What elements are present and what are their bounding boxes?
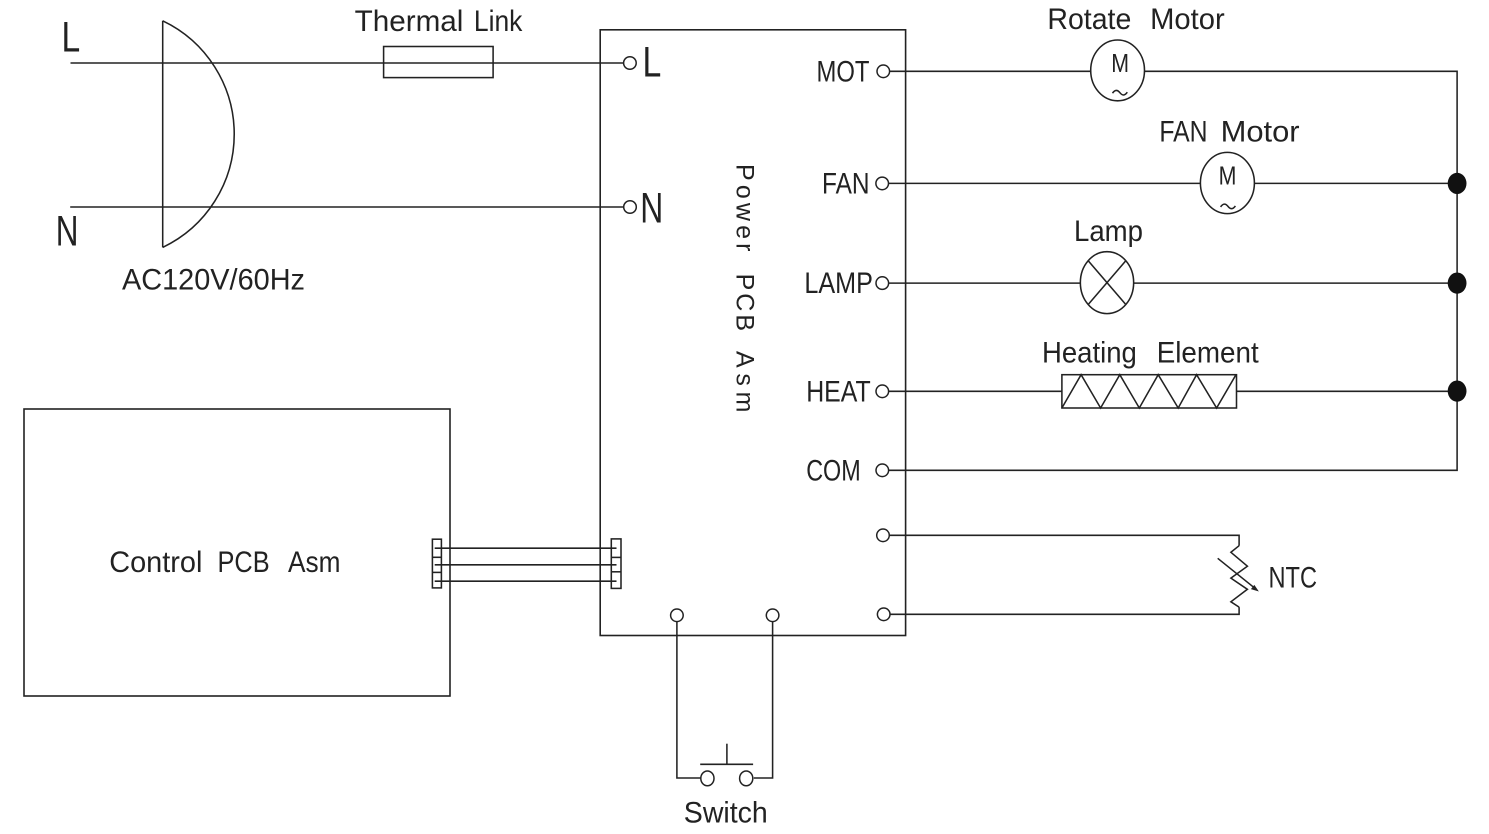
pin label L inside Power PCB — [643, 38, 662, 86]
label FAN Motor — [1159, 116, 1299, 149]
svg-text:M: M — [1111, 48, 1129, 78]
label Rotate Motor — [1047, 3, 1224, 36]
thermistor RT1 NTC zigzag — [1218, 546, 1259, 607]
Power PCB Asm box U1 — [600, 30, 905, 636]
wire NTC top — [889, 535, 1239, 545]
terminal switch left pin circle on bottom edge — [671, 609, 684, 622]
svg-text:Power: Power — [730, 164, 758, 252]
svg-text:PCB: PCB — [218, 546, 270, 579]
svg-text:L: L — [643, 38, 662, 86]
motor M1 Rotate Motor symbol — [1091, 40, 1145, 101]
svg-text:Heating: Heating — [1042, 337, 1137, 370]
connector J2 on Power PCB — [611, 539, 621, 589]
terminal N pin circle — [624, 201, 637, 214]
wire HEAT to heating element and right bus — [889, 390, 1458, 392]
motor M2 FAN Motor symbol — [1200, 152, 1254, 213]
terminal NTC top pin circle — [877, 529, 890, 542]
label Power PCB Asm (rotated) — [730, 164, 758, 413]
fuse F1 Thermal Link — [384, 47, 494, 78]
svg-text:Switch: Switch — [684, 796, 768, 829]
label Switch — [684, 796, 768, 829]
wire ribbon line 2 — [435, 564, 617, 566]
wire switch left lead — [677, 622, 701, 778]
svg-text:Rotate: Rotate — [1047, 3, 1131, 36]
value label Thermal Link — [355, 5, 524, 38]
svg-text:N: N — [56, 207, 79, 255]
Control PCB Asm box U2 — [24, 409, 450, 696]
pin label COM — [806, 454, 861, 487]
svg-text:COM: COM — [806, 454, 861, 487]
junction dot at HEAT bus — [1448, 381, 1467, 402]
svg-text:AC120V/60Hz: AC120V/60Hz — [122, 264, 305, 297]
svg-text:PCB: PCB — [730, 274, 758, 332]
svg-text:FAN: FAN — [1159, 116, 1207, 149]
junction dot at LAMP bus — [1448, 273, 1467, 294]
junction dot at FAN bus — [1448, 173, 1467, 194]
terminal LAMP pin circle — [876, 277, 889, 290]
heater HE1 Heating Element symbol — [1062, 375, 1237, 408]
svg-text:NTC: NTC — [1269, 561, 1318, 594]
svg-text:M: M — [1219, 161, 1237, 191]
terminal COM pin circle — [876, 464, 889, 477]
wire NTC bottom — [890, 607, 1239, 614]
node L mains label — [62, 13, 81, 61]
connector J1 on Control PCB — [432, 539, 441, 588]
pin label FAN — [822, 167, 870, 200]
pin label N inside Power PCB — [640, 185, 663, 233]
wire ribbon line 3 — [435, 580, 617, 582]
pin label HEAT — [806, 375, 871, 408]
switch SW1 push-button contacts — [700, 744, 753, 786]
terminal FAN pin circle — [876, 177, 889, 190]
wire LAMP to lamp and right bus — [889, 282, 1458, 284]
wire FAN to fan motor and right bus — [889, 182, 1458, 184]
svg-text:Asm: Asm — [288, 546, 340, 579]
svg-text:Motor: Motor — [1221, 116, 1300, 149]
wire ribbon line 1 — [435, 547, 617, 549]
terminal switch right pin circle on bottom edge — [766, 609, 779, 622]
label Heating Element — [1042, 337, 1259, 370]
pin label LAMP — [804, 267, 873, 300]
terminal L pin circle — [624, 57, 637, 70]
wire N line from source to Power PCB terminal N — [70, 206, 623, 208]
svg-text:N: N — [640, 185, 663, 233]
pin label MOT — [817, 55, 870, 88]
lamp LP1 symbol circle with X — [1080, 252, 1133, 314]
svg-text:Control: Control — [109, 546, 202, 579]
svg-text:MOT: MOT — [817, 55, 870, 88]
svg-text:L: L — [62, 13, 81, 61]
svg-text:Lamp: Lamp — [1074, 215, 1143, 248]
svg-text:Element: Element — [1157, 337, 1260, 370]
svg-text:Motor: Motor — [1150, 3, 1225, 36]
label NTC — [1269, 561, 1318, 594]
svg-text:Link: Link — [474, 5, 523, 38]
terminal HEAT pin circle — [876, 385, 889, 398]
svg-text:LAMP: LAMP — [804, 267, 873, 300]
svg-text:HEAT: HEAT — [806, 375, 871, 408]
terminal NTC bottom pin circle — [877, 608, 890, 621]
label Lamp — [1074, 215, 1143, 248]
wire switch right lead — [754, 622, 773, 778]
wire MOT to rotate motor, right bus, and COM return — [889, 71, 1458, 470]
AC source plug AC120V/60Hz (D-shape) — [163, 21, 235, 248]
value label AC120V/60Hz — [122, 264, 305, 297]
svg-text:Asm: Asm — [730, 351, 758, 413]
wire L line from source to Power PCB terminal L — [71, 62, 624, 64]
terminal MOT pin circle — [877, 65, 890, 78]
node N mains label — [56, 207, 79, 255]
svg-text:Thermal: Thermal — [355, 5, 464, 38]
svg-text:FAN: FAN — [822, 167, 870, 200]
label Control PCB Asm — [109, 546, 340, 579]
